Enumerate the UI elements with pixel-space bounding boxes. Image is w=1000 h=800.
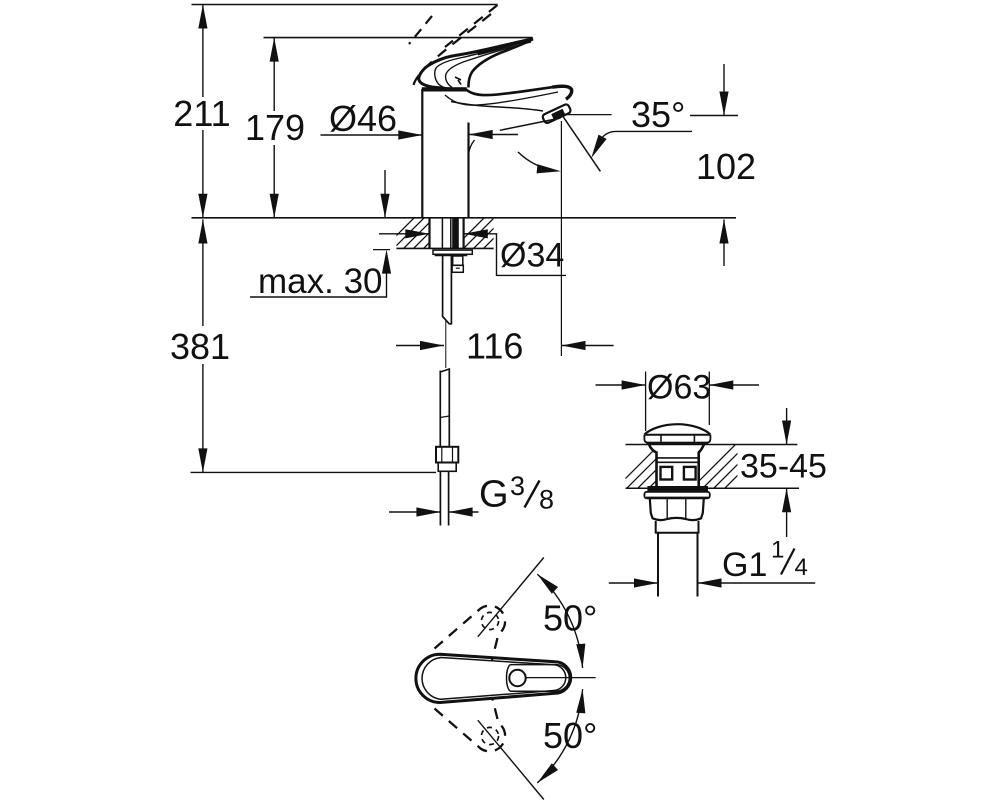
- handle dashed position down: [435, 697, 506, 751]
- 50 deg lower ray: [478, 720, 544, 799]
- faucet cap bar: [422, 87, 467, 91]
- svg-text:50°: 50°: [543, 715, 597, 756]
- dimension G3/8 arrows: [389, 511, 440, 513]
- fixing stud: [453, 256, 463, 265]
- svg-text:Ø46: Ø46: [329, 98, 397, 139]
- drain neck: [649, 445, 657, 487]
- rubber seal: [647, 486, 708, 492]
- washer: [644, 492, 709, 499]
- tailpipe: [657, 534, 659, 597]
- top reference line (211 level): [192, 4, 498, 6]
- svg-text:102: 102: [696, 146, 756, 187]
- supply hose segment 1: [443, 256, 452, 324]
- 381 baseline: [191, 471, 437, 473]
- counter hole left wall: [428, 218, 430, 249]
- dimension 102 bottom arrow: [723, 220, 725, 267]
- G3/8 connector tube: [439, 471, 441, 525]
- mounting flange under counter: [433, 250, 472, 254]
- aerator leader line to 35 deg: [564, 114, 612, 116]
- handle knob plateau: [507, 665, 570, 692]
- counter section hatching right: [450, 212, 530, 252]
- svg-text:8: 8: [539, 485, 554, 515]
- water stream 35 deg diagonal: [563, 116, 601, 171]
- svg-text:211: 211: [173, 93, 230, 134]
- svg-text:4: 4: [795, 554, 808, 581]
- counter section bottom line: [396, 247, 493, 249]
- spout top edge: [466, 87, 552, 95]
- lever inner line 1: [435, 41, 531, 89]
- svg-text:179: 179: [245, 107, 305, 148]
- svg-text:35°: 35°: [631, 94, 685, 135]
- 50 deg upper ray: [478, 558, 544, 637]
- dimension 35-45: [786, 408, 788, 445]
- dimension 211 line: [202, 5, 204, 98]
- hose centerline: [445, 320, 447, 369]
- aerator: [542, 103, 572, 124]
- supply hose segment 2: [440, 369, 449, 447]
- spout underside: [451, 102, 543, 112]
- handle outer capsule: [416, 654, 571, 702]
- spout-body transition curve: [469, 140, 475, 156]
- drain hatching right: [688, 444, 769, 492]
- spout height reference line: [690, 115, 738, 117]
- 50 deg lower arc: [537, 689, 582, 783]
- hose nut: [436, 447, 458, 463]
- svg-text:1: 1: [771, 537, 784, 564]
- lever inner line 2: [446, 42, 531, 88]
- countertop line: [192, 217, 737, 219]
- dimension 381 line: [202, 220, 204, 327]
- svg-text:Ø63: Ø63: [647, 369, 711, 407]
- plug cap rim: [644, 435, 710, 443]
- lever raised dashed lower edge: [414, 14, 492, 85]
- dimension G1 1/4: [609, 582, 658, 584]
- 50 deg upper arc: [537, 574, 582, 668]
- svg-text:50°: 50°: [543, 598, 597, 639]
- dimension 116: [396, 345, 444, 347]
- vertical reference from aerator: [560, 121, 562, 356]
- counter underside extension line: [373, 249, 390, 251]
- svg-text:116: 116: [466, 326, 523, 367]
- 35 deg bent leader with arrow: [600, 131, 693, 141]
- plug cap dome: [644, 424, 710, 434]
- lever underside: [468, 39, 533, 88]
- overflow slots: [661, 467, 673, 480]
- O63 extension lines: [645, 372, 647, 432]
- spout inner line: [445, 92, 558, 105]
- drain counter top line: [626, 444, 798, 446]
- drain hatching left: [612, 444, 693, 492]
- dimension O34: [379, 233, 429, 235]
- lever solid outline: [419, 39, 533, 89]
- faucet body left edge: [421, 89, 423, 217]
- handle centerline: [526, 677, 596, 679]
- dimension O63: [596, 384, 646, 386]
- svg-text:G1: G1: [722, 546, 767, 584]
- svg-text:381: 381: [170, 326, 230, 367]
- handle inner contour: [422, 658, 566, 700]
- flow arc arrow: [518, 152, 556, 171]
- dimension 179 line: [273, 38, 275, 111]
- svg-text:G: G: [479, 474, 509, 516]
- lever raised dashed upper edge: [445, 5, 498, 47]
- locknut: [650, 498, 704, 520]
- svg-text:Ø34: Ø34: [500, 237, 564, 275]
- svg-text:3: 3: [510, 471, 525, 501]
- spout nose: [552, 86, 572, 99]
- transition ring: [656, 521, 699, 534]
- aerator axis line: [500, 118, 561, 130]
- svg-text:35-45: 35-45: [740, 448, 827, 486]
- max.30 leader: [250, 255, 387, 297]
- dimension 102 top arrow: [723, 64, 725, 116]
- drain counter bottom line: [626, 487, 800, 489]
- faucet body right edge: [467, 123, 469, 218]
- handle pivot circle: [509, 670, 525, 686]
- 179 reference line: [264, 37, 533, 39]
- lever pivot dashes: [455, 77, 461, 85]
- counter hole right wall: [463, 218, 465, 249]
- lever raised dashed rear edge: [409, 16, 432, 44]
- svg-text:max. 30: max. 30: [258, 262, 383, 301]
- counter section hatching left: [380, 212, 460, 252]
- handle dashed position up: [435, 606, 506, 660]
- max.30 upper arrow: [384, 170, 386, 218]
- lever top ridge wedge: [477, 39, 533, 56]
- shank lines: [441, 218, 443, 249]
- fixing nut: [452, 265, 463, 272]
